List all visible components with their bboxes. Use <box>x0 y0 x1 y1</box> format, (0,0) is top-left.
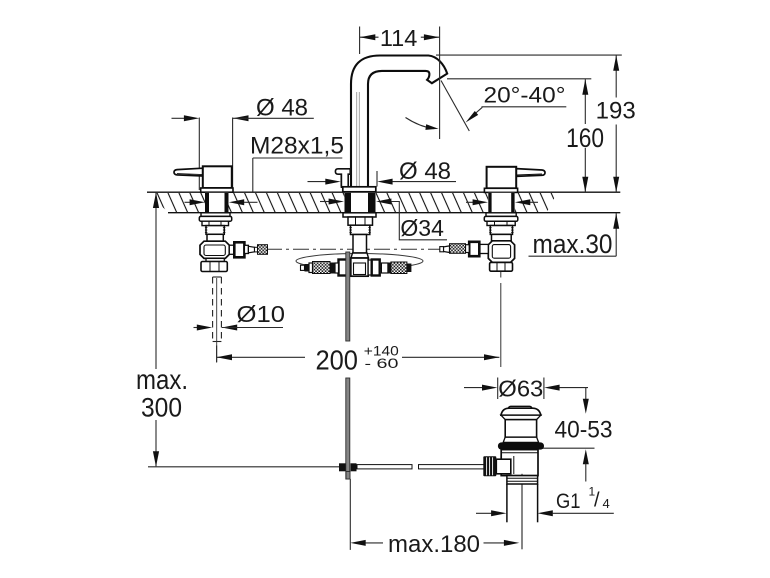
left valve extension line left (d48) <box>198 118 200 191</box>
dimension 160 label <box>566 123 604 153</box>
svg-text:Ø 48: Ø 48 <box>256 95 308 122</box>
dimension max300 line and arrows <box>153 193 159 467</box>
tee right hose nut <box>372 260 380 276</box>
svg-text:300: 300 <box>141 392 182 422</box>
left valve locknut <box>202 221 229 225</box>
dimension max.30 label <box>533 229 613 259</box>
right handle base flange <box>484 188 517 192</box>
dimension max300 label <box>136 364 188 422</box>
tee left hose end ring <box>309 263 313 273</box>
flow direction line 20-40 degrees <box>441 81 469 132</box>
label M28x1,5 <box>250 133 344 160</box>
dimension 40-53 bottom arrow <box>583 449 589 481</box>
right handle lever <box>516 169 545 177</box>
left handle body <box>203 166 232 188</box>
curved angle arrow <box>406 118 439 130</box>
dimension 40-53 reference line <box>542 447 595 449</box>
svg-text:4: 4 <box>603 496 610 511</box>
right valve hose end nub <box>440 247 444 252</box>
dimension 160 line and arrows <box>582 79 588 192</box>
svg-text:160: 160 <box>566 123 604 153</box>
dimension 40-53 top arrow <box>583 388 589 414</box>
svg-text:Ø10: Ø10 <box>237 301 286 327</box>
right valve locknut <box>487 221 515 225</box>
center d48 right extension line <box>376 171 378 187</box>
svg-text:max.30: max.30 <box>533 229 613 259</box>
pop-up lever rod right segment <box>419 465 486 469</box>
hose centerline dash-dot <box>266 248 451 250</box>
d63 left extension line <box>497 378 499 400</box>
left valve hose cone <box>248 246 254 253</box>
svg-text:40-53: 40-53 <box>555 416 613 443</box>
right valve hose ring <box>466 245 470 253</box>
dimension d63 label <box>498 375 543 401</box>
left valve threaded shank <box>205 226 226 235</box>
drain upper neck <box>501 415 541 442</box>
drain flange seal <box>498 442 544 449</box>
right valve hose braid <box>450 244 466 254</box>
center tee funnel <box>351 253 369 258</box>
tee right hose collar <box>368 260 372 275</box>
dimension d63 arrows <box>464 385 588 391</box>
left valve extension line right (d48) <box>232 118 234 190</box>
svg-text:- 60: - 60 <box>365 355 399 371</box>
dimension 200 line and arrows <box>217 346 500 363</box>
svg-text:/: / <box>594 490 600 512</box>
dimension 114 left extension line <box>359 27 361 55</box>
pop-up rod below counter upper segment <box>346 252 350 341</box>
dimension 193 line and arrows <box>613 55 619 192</box>
rod crossing fitting <box>339 463 357 479</box>
right valve threaded shank <box>489 226 513 235</box>
center shank in slab <box>345 193 376 213</box>
dimension 193 label <box>596 98 636 125</box>
leader arrow to flow line <box>466 107 483 122</box>
right valve centerline below <box>500 272 502 367</box>
outlet level extension line (160) <box>447 78 591 80</box>
dimension max180 label <box>388 531 480 558</box>
drain pop-up cap dome <box>501 408 541 415</box>
center column tube <box>353 235 367 254</box>
center tee block <box>351 258 368 276</box>
drain lever cylinder <box>496 459 511 474</box>
right valve hose collar <box>479 244 488 253</box>
pop-up rod below counter lower segment <box>346 378 350 479</box>
drain tail pipe <box>507 484 538 522</box>
dimension d48 left arrows <box>172 115 314 121</box>
center column threaded shank <box>349 225 370 234</box>
left valve hose collar <box>229 245 234 254</box>
tee right hose crimp <box>388 263 391 274</box>
countertop slab top line <box>147 191 620 193</box>
left valve bottom nut <box>201 262 227 272</box>
svg-text:Ø63: Ø63 <box>498 375 543 401</box>
dimension max.30 line and arrow <box>529 213 620 256</box>
tee right hose ring <box>381 263 388 273</box>
center column locknut <box>348 217 373 225</box>
dimension 114 line and arrows <box>360 34 440 40</box>
svg-text:193: 193 <box>596 98 636 125</box>
tee left hose ring <box>335 263 339 273</box>
right valve washer <box>484 213 518 221</box>
center column washer <box>343 213 376 217</box>
dimension max180 arrows <box>350 540 519 546</box>
dimension 40-53 label <box>555 416 613 443</box>
left valve washer <box>199 213 231 221</box>
center d48 left extension line <box>340 171 342 187</box>
d63 right extension line <box>543 378 545 400</box>
right valve hose cone <box>444 246 450 253</box>
countertop hatching segment A <box>147 193 205 212</box>
left valve neck tube <box>207 234 223 241</box>
pop-up lever rod left segment <box>357 465 412 469</box>
left handle base flange <box>201 188 233 192</box>
svg-text:max.180: max.180 <box>388 531 480 558</box>
pop-up rod knob above escutcheon <box>335 169 350 188</box>
left valve d10 dashed pipe <box>213 277 222 362</box>
countertop hatching segment C <box>376 193 488 212</box>
d34 leader with arrow <box>376 199 447 240</box>
dimension G1 1/4 label <box>556 485 610 513</box>
dimension max180 left extension <box>349 479 351 550</box>
tee right hose braid <box>391 262 407 274</box>
left valve body block <box>200 241 229 258</box>
pop-up rod visible inside spout <box>357 92 360 186</box>
left valve outlet collar <box>206 258 224 261</box>
dimension 114 label <box>380 25 417 51</box>
spout top extension line (193) <box>436 54 622 56</box>
drain center rod <box>521 474 523 550</box>
left valve hose nut <box>234 242 244 257</box>
svg-text:114: 114 <box>380 25 417 51</box>
svg-text:20°-40°: 20°-40° <box>484 82 566 107</box>
ellipse mounting ring under counter <box>296 254 423 269</box>
svg-text:M28x1,5: M28x1,5 <box>250 133 344 160</box>
tee left hose braid <box>313 262 331 274</box>
svg-text:Ø34: Ø34 <box>400 215 444 241</box>
center escutcheon flange <box>343 187 376 192</box>
left shank arrows in slab <box>185 199 258 205</box>
bottom reference line <box>148 466 339 468</box>
angle label 20-40 <box>484 82 566 107</box>
right valve shank in slab <box>488 193 514 213</box>
countertop hatching segment D <box>515 193 557 212</box>
svg-text:max.: max. <box>136 364 188 395</box>
label M28x1,5 leader <box>252 158 254 192</box>
countertop hatching segment B <box>229 193 345 212</box>
tee left hose end nub <box>301 265 305 270</box>
tee left hose crimp <box>330 263 335 274</box>
tee left hose nut <box>339 260 349 276</box>
dimension 114 right extension line <box>439 27 441 140</box>
center d48 label <box>399 158 451 185</box>
center shank arrows in slab <box>320 199 344 205</box>
angle label 20-40 underline <box>482 106 567 108</box>
spout body <box>351 56 447 189</box>
drain pop-up cap slot <box>508 406 532 411</box>
dimension 200 label <box>315 342 399 375</box>
left valve hose braid <box>258 245 268 255</box>
right shank arrows in slab <box>466 199 538 205</box>
d34 label <box>400 215 444 241</box>
dimension G1 1/4 arrows <box>476 510 614 516</box>
right valve body block <box>488 241 514 263</box>
dimension d48 left label <box>256 95 308 122</box>
right valve hose nut <box>469 242 479 256</box>
center d48 arrows <box>308 179 457 185</box>
left valve shank in slab <box>205 193 229 213</box>
svg-text:200: 200 <box>315 344 358 375</box>
svg-text:Ø 48: Ø 48 <box>399 158 451 185</box>
tee right hose end cap <box>407 264 412 273</box>
right handle body <box>487 167 517 189</box>
drain lever knob <box>483 456 496 476</box>
label M28x1,5 underline <box>253 157 342 159</box>
left valve hose tube <box>255 247 258 252</box>
countertop slab bottom line <box>168 212 620 214</box>
dimension d10 arrows <box>194 325 284 331</box>
dimension d10 label <box>237 301 286 327</box>
left valve hose ring <box>244 245 248 253</box>
drain bottom nut <box>507 476 538 484</box>
tee left hose end cap <box>305 264 310 272</box>
left handle lever <box>174 168 203 176</box>
right valve neck tube <box>492 234 512 240</box>
svg-text:G1: G1 <box>556 489 581 513</box>
drain body <box>501 450 538 476</box>
right valve bottom nut <box>490 262 513 271</box>
